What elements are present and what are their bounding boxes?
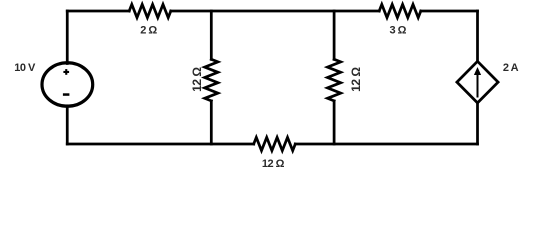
wire left branch lower <box>66 106 69 144</box>
resistor R4 3ohm zigzag <box>379 4 421 17</box>
wire bottom rail left segment <box>67 143 253 146</box>
wire top rail right segment <box>421 10 478 13</box>
voltage source minus sign <box>63 93 70 96</box>
resistor R3 12ohm vertical zigzag <box>328 59 341 101</box>
wire left branch upper <box>66 11 69 64</box>
svg-text:10 V: 10 V <box>14 62 36 74</box>
svg-text:3 Ω: 3 Ω <box>389 24 406 36</box>
current source I1 diamond <box>457 61 498 103</box>
resistor R5 12ohm bottom zigzag <box>254 137 296 150</box>
svg-text:12 Ω: 12 Ω <box>262 158 285 170</box>
resistor R1 2ohm zigzag <box>129 4 171 17</box>
svg-text:2 Ω: 2 Ω <box>140 25 157 37</box>
wire middle branch 1 lower <box>210 101 213 144</box>
current source arrow <box>474 67 481 98</box>
wire right branch lower <box>476 103 479 144</box>
wire top rail left segment <box>67 10 129 13</box>
wire top rail middle segment <box>171 10 379 13</box>
resistor R2 12ohm vertical zigzag <box>205 59 218 101</box>
voltage source V1 ellipse <box>42 63 93 107</box>
wire middle branch 2 upper <box>333 11 336 59</box>
svg-text:12 Ω: 12 Ω <box>349 67 363 92</box>
svg-text:2 A: 2 A <box>503 62 519 74</box>
wire middle branch 1 upper <box>210 11 213 59</box>
svg-text:12 Ω: 12 Ω <box>190 67 204 92</box>
wire right branch upper <box>476 11 479 62</box>
wire bottom rail right segment <box>295 143 477 146</box>
wire middle branch 2 lower <box>333 101 336 144</box>
voltage source plus sign <box>63 69 69 75</box>
